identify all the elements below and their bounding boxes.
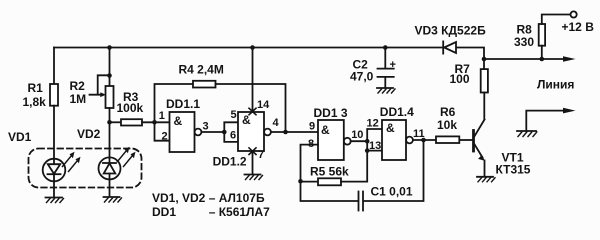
diode VD3 — [443, 41, 456, 53]
svg-text:13: 13 — [369, 140, 381, 152]
wire pin4 to pin9 — [271, 131, 318, 133]
svg-text:4: 4 — [273, 117, 280, 129]
svg-text:DD1.4: DD1.4 — [380, 105, 414, 119]
node line-R7 — [482, 57, 487, 62]
svg-text:11: 11 — [413, 128, 425, 140]
node pin10 riser — [365, 139, 370, 144]
svg-text:R2: R2 — [70, 79, 86, 93]
dashed optocoupler box — [29, 149, 142, 188]
node R2-R3 — [107, 120, 112, 125]
svg-text:7: 7 — [258, 149, 264, 161]
arrow line top — [563, 56, 576, 62]
LED VD1 — [43, 159, 66, 182]
resistor R2 (trimmer) — [106, 86, 114, 108]
wire pin14 riser — [252, 48, 254, 113]
svg-text:10k: 10k — [437, 118, 457, 132]
svg-text:DD1 3: DD1 3 — [314, 106, 348, 120]
wire VD1 to ground — [53, 181, 55, 196]
wire R3 to gate input node — [142, 121, 170, 123]
svg-text:DD1.2: DD1.2 — [213, 155, 247, 169]
node line-R8 — [540, 57, 545, 62]
svg-text:+12 В: +12 В — [562, 20, 595, 34]
ground line bottom — [517, 131, 537, 137]
node bus-C2 — [383, 45, 388, 50]
svg-text:330: 330 — [514, 35, 534, 49]
svg-text:1M: 1M — [70, 92, 87, 106]
LED VD2 — [99, 157, 121, 179]
svg-text:VD1: VD1 — [8, 130, 32, 144]
ground under C2 — [377, 88, 395, 93]
svg-text:C1 0,01: C1 0,01 — [371, 185, 413, 199]
wire VD2 to ground — [109, 179, 111, 196]
resistor R6 — [436, 136, 459, 143]
terminal +12V — [571, 11, 577, 17]
transistor VT1 — [459, 120, 485, 177]
capacitor C2 — [378, 48, 394, 88]
wire R2 branch top — [109, 48, 111, 87]
op-amp gate DD1.4 — [382, 120, 413, 160]
resistor R5 — [301, 181, 319, 183]
svg-text:DD1: DD1 — [152, 205, 176, 219]
svg-text:&: & — [174, 114, 183, 128]
svg-text:Линия: Линия — [537, 78, 574, 92]
wire pin3 — [201, 131, 224, 133]
node pin13-R5 — [365, 148, 370, 153]
wire R1 to VD1 — [53, 106, 55, 159]
wire R8 top to terminal — [542, 15, 571, 25]
svg-text:5: 5 — [231, 109, 237, 121]
wire input node to pin2 — [155, 122, 170, 140]
svg-text:&: & — [386, 121, 395, 135]
svg-text:100k: 100k — [117, 101, 144, 115]
pin7 cross — [249, 148, 256, 155]
svg-text:R4 2,4M: R4 2,4M — [179, 63, 224, 77]
op-amp gate DD1.1 — [170, 112, 202, 152]
arrow line bottom — [563, 108, 576, 114]
svg-text:VD1, VD2 – АЛ107Б: VD1, VD2 – АЛ107Б — [152, 191, 265, 205]
resistor R4 feedback — [155, 84, 194, 122]
R2 wiper arm — [90, 75, 110, 94]
svg-text:&: & — [321, 123, 330, 137]
node pin3 bracket — [222, 130, 227, 135]
VD2 emission arrows — [118, 147, 136, 167]
wire line bottom — [526, 111, 563, 131]
wire R8 bottom — [541, 46, 543, 59]
node R2 wiper tee — [107, 73, 112, 78]
resistor R8 — [539, 24, 545, 46]
ground under VT1 — [477, 177, 495, 182]
svg-text:6: 6 — [230, 130, 236, 142]
wire R7 to collector — [483, 93, 485, 120]
svg-text:R6: R6 — [440, 105, 456, 119]
resistor R3 — [110, 121, 122, 123]
svg-text:VD3 КД522Б: VD3 КД522Б — [415, 24, 487, 38]
wire pin10 — [351, 140, 368, 142]
pin14 cross — [249, 108, 256, 115]
ground under VD1 — [46, 198, 64, 203]
node R3/R4/pins — [152, 120, 157, 125]
svg-text:8: 8 — [308, 138, 314, 150]
node R4-pin4 — [283, 130, 288, 135]
svg-text:R1: R1 — [28, 81, 44, 95]
svg-text:DD1.1: DD1.1 — [166, 97, 200, 111]
svg-text:47,0: 47,0 — [350, 70, 374, 84]
ground under VD2 — [104, 197, 122, 202]
node pin11-C1 — [421, 138, 426, 143]
wire riser pins 12,13 — [367, 129, 382, 151]
ground under pin7 — [245, 175, 263, 180]
wire bracket pins 5,6 — [224, 122, 238, 142]
wire pin8 — [301, 145, 319, 182]
svg-text:– К561ЛА7: – К561ЛА7 — [209, 205, 270, 219]
svg-text:10: 10 — [351, 129, 363, 141]
wire top line — [484, 58, 563, 60]
node R5-C1 — [298, 179, 303, 184]
svg-text:100: 100 — [450, 72, 470, 86]
svg-text:14: 14 — [257, 99, 270, 111]
VD1 emission arrows — [63, 152, 81, 172]
svg-text:VD2: VD2 — [77, 127, 101, 141]
svg-text:1,8k: 1,8k — [23, 95, 47, 109]
node bus-pin14 — [250, 45, 255, 50]
wire pin11 to R6 — [413, 139, 436, 141]
svg-text:1: 1 — [159, 110, 165, 122]
svg-text:12: 12 — [367, 118, 379, 130]
svg-text:2: 2 — [162, 131, 168, 143]
svg-text:&: & — [242, 113, 251, 127]
op-amp gate DD1.2 — [238, 112, 271, 151]
wire R1 branch — [53, 48, 55, 85]
wire top bus — [54, 47, 443, 49]
svg-text:КТ315: КТ315 — [496, 163, 531, 177]
wire bus VD3 to right step — [456, 48, 484, 60]
wire R4 to pin4 net — [216, 84, 286, 132]
capacitor C1 — [301, 140, 424, 211]
svg-text:+: + — [390, 59, 396, 71]
op-amp gate DD1.3 — [318, 120, 351, 160]
svg-text:3: 3 — [203, 121, 209, 133]
wire R2 to VD2 — [109, 108, 111, 158]
svg-text:R5 56k: R5 56k — [310, 165, 349, 179]
wire pin7 down — [252, 151, 254, 174]
resistor R1 — [50, 84, 58, 106]
node bus-R2 — [107, 45, 112, 50]
svg-text:9: 9 — [309, 121, 315, 133]
resistor R7 — [483, 59, 485, 69]
